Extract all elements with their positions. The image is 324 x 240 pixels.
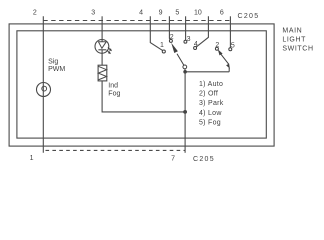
left switch pivot circle	[183, 65, 187, 69]
MAIN LIGHT SWITCH label	[282, 27, 313, 52]
junction dot resistor branch	[183, 110, 187, 114]
svg-text:5: 5	[175, 9, 179, 16]
svg-text:Ind: Ind	[108, 82, 118, 89]
left pivot stub wire	[184, 69, 186, 72]
LED emission arrow 2	[107, 50, 111, 54]
switch position legend	[199, 81, 224, 126]
svg-text:SWITCH: SWITCH	[282, 46, 313, 53]
wire LED to resistor	[101, 50, 103, 65]
svg-text:2) Off: 2) Off	[199, 91, 218, 98]
wire pin 5	[185, 16, 187, 40]
LED triangle	[98, 42, 106, 49]
PWM signal source inner ring	[42, 86, 47, 91]
LED emission arrow 1	[108, 47, 112, 51]
wire pin 2 to pin 1 through PWM source	[42, 16, 44, 153]
connector C205 top dashed line	[43, 20, 230, 22]
main light switch inner box	[17, 31, 266, 138]
svg-text:Sig: Sig	[48, 58, 58, 65]
svg-text:10: 10	[194, 9, 202, 16]
svg-text:4) Low: 4) Low	[199, 110, 222, 117]
svg-text:1) Auto: 1) Auto	[199, 81, 223, 88]
contact 5 circle	[229, 48, 232, 51]
junction dot common	[183, 70, 187, 74]
contact 2 circle	[169, 39, 172, 42]
contact 2 fog circle	[215, 47, 218, 50]
svg-text:C205: C205	[238, 13, 260, 20]
svg-text:2: 2	[33, 9, 37, 16]
svg-text:2: 2	[170, 34, 174, 41]
wire resistor down and right to junction	[102, 81, 185, 112]
resistor zigzag	[98, 66, 106, 80]
svg-text:PWM: PWM	[48, 66, 65, 73]
svg-text:2: 2	[215, 42, 219, 49]
main light switch outer box	[9, 24, 274, 146]
right arm stub wire	[228, 68, 230, 72]
wire pin 3 to LED	[101, 16, 103, 41]
LED indicator circle	[95, 40, 109, 54]
wire pin 6	[229, 16, 231, 47]
svg-text:5: 5	[231, 42, 235, 49]
wire common down to pin 7	[184, 72, 186, 153]
svg-text:1: 1	[30, 155, 34, 162]
wire pin 4 elbow	[150, 16, 162, 50]
contact 4 circle	[194, 47, 197, 50]
right switch arm	[218, 49, 230, 69]
left switch arm	[171, 43, 184, 65]
PWM signal source circle	[37, 83, 51, 97]
svg-text:5) Fog: 5) Fog	[199, 119, 221, 126]
svg-text:6: 6	[220, 9, 224, 16]
wire pin 10 elbow	[196, 16, 208, 47]
connector C205 bottom dashed line	[46, 149, 186, 151]
LED cathode bar	[98, 49, 106, 51]
svg-text:4: 4	[139, 9, 143, 16]
contact 3 circle	[184, 40, 187, 43]
resistor Ind Fog box	[98, 65, 107, 81]
wire pin 9 elbow	[168, 16, 171, 39]
svg-text:3) Park: 3) Park	[199, 100, 224, 107]
svg-text:4: 4	[194, 41, 198, 48]
svg-text:LIGHT: LIGHT	[282, 36, 306, 43]
svg-text:9: 9	[159, 9, 163, 16]
switch common horizontal wire	[185, 71, 229, 73]
svg-text:C205: C205	[193, 156, 215, 163]
svg-text:3: 3	[91, 9, 95, 16]
svg-text:MAIN: MAIN	[282, 27, 302, 34]
svg-text:1: 1	[160, 42, 164, 49]
contact 1 circle	[162, 50, 165, 53]
svg-text:7: 7	[171, 156, 175, 163]
svg-text:Fog: Fog	[108, 90, 120, 97]
svg-text:3: 3	[187, 36, 191, 43]
